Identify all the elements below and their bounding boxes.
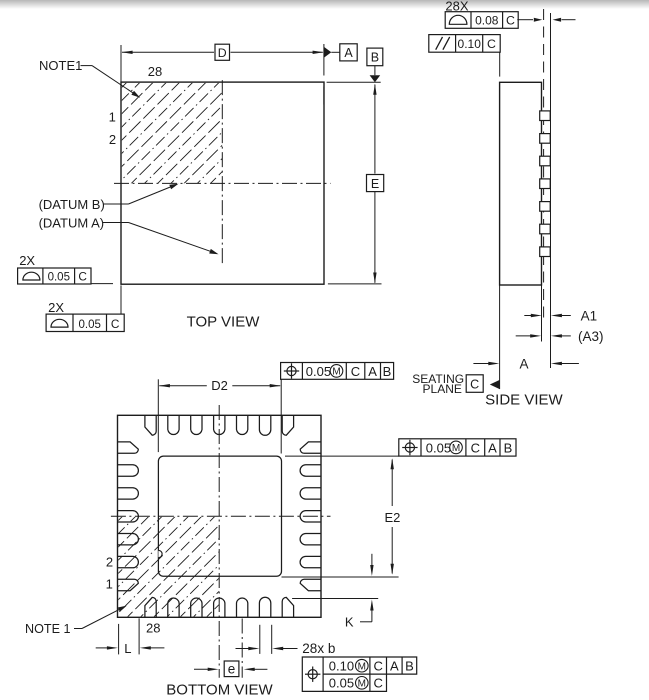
dimension L with arrows bbox=[96, 647, 110, 649]
side view lead-edge dashed line bbox=[543, 9, 545, 321]
pin 4 pad (left column) bbox=[118, 511, 139, 522]
svg-text:1: 1 bbox=[109, 110, 116, 125]
svg-text:TOP VIEW: TOP VIEW bbox=[187, 313, 261, 330]
svg-text:(DATUM B): (DATUM B) bbox=[39, 197, 105, 212]
dimension D2 extension lines bbox=[157, 379, 159, 452]
svg-text:A1: A1 bbox=[581, 308, 598, 323]
dimension e boxed label bbox=[224, 661, 239, 677]
pin 12 pad (top row) bbox=[237, 415, 248, 434]
dimension E extension line top bbox=[327, 81, 381, 83]
svg-text:B: B bbox=[383, 364, 392, 379]
svg-text:0.05: 0.05 bbox=[306, 364, 331, 379]
svg-text:C: C bbox=[487, 37, 496, 51]
svg-text:e: e bbox=[228, 661, 236, 676]
svg-text:C: C bbox=[471, 440, 480, 455]
top view vertical centerline bbox=[221, 80, 223, 266]
svg-text:2: 2 bbox=[109, 132, 116, 147]
svg-text:A: A bbox=[488, 440, 497, 455]
datum B triangle and stem bbox=[374, 66, 376, 76]
pin 10 pad (top row) bbox=[191, 415, 202, 434]
dimension L extension lines bbox=[118, 624, 120, 655]
bottom view vertical centerline bbox=[218, 405, 220, 678]
side view body outline bbox=[500, 82, 542, 285]
pin 16 pad (right column) bbox=[300, 465, 321, 476]
dimension D extension line left bbox=[120, 45, 122, 82]
svg-text:C: C bbox=[78, 270, 87, 284]
svg-text:C: C bbox=[374, 676, 383, 691]
svg-text:D: D bbox=[218, 46, 227, 60]
pin 11 pad (top row) bbox=[214, 415, 225, 434]
svg-text:D2: D2 bbox=[211, 378, 228, 393]
pin 22 pad (bottom row, chamfered) bbox=[282, 597, 293, 617]
28X profile tolerance frame bbox=[445, 12, 518, 29]
side view lead cross-sections bbox=[540, 111, 551, 121]
pin 23 pad (bottom row) bbox=[259, 597, 270, 617]
dimension A1 with arrows bbox=[524, 315, 533, 317]
pin 28 pad (bottom row, chamfered) bbox=[145, 597, 156, 617]
svg-text:0.08: 0.08 bbox=[475, 13, 499, 27]
dimension E boxed label bbox=[367, 175, 384, 192]
svg-text:28: 28 bbox=[146, 621, 160, 636]
pin 3 pad (left column) bbox=[118, 534, 139, 545]
svg-text:B: B bbox=[405, 659, 414, 674]
pin 13 pad (top row) bbox=[259, 415, 270, 435]
leader line from body corner to lower frame bbox=[120, 285, 122, 314]
position tolerance frame top (exposed pad) bbox=[281, 363, 394, 380]
extension line from frame to body bottom edge bbox=[91, 283, 113, 285]
svg-text:(DATUM A): (DATUM A) bbox=[39, 216, 104, 231]
svg-text:A: A bbox=[390, 659, 399, 674]
pin 17 pad (right column) bbox=[300, 488, 321, 499]
svg-text:(A3): (A3) bbox=[578, 329, 604, 344]
datum B boxed label bbox=[367, 48, 383, 66]
pin 15 pad (right column, chamfered) bbox=[300, 442, 321, 453]
pin 5 pad (left column) bbox=[118, 488, 139, 499]
leader arrows for 28X callout bbox=[517, 19, 533, 21]
bottom view package body outline bbox=[118, 415, 322, 617]
top gradient shade bbox=[0, 0, 649, 9]
exposed pad pin-1 notch bbox=[158, 550, 162, 557]
dimension E extension line bottom bbox=[328, 283, 382, 285]
svg-text:M: M bbox=[452, 443, 460, 454]
svg-text:E2: E2 bbox=[384, 510, 400, 525]
svg-text:K: K bbox=[345, 614, 354, 629]
pin 1 pad (left column, chamfered) bbox=[118, 579, 139, 590]
top view horizontal centerline bbox=[114, 182, 331, 184]
datum A boxed label bbox=[340, 44, 357, 61]
pin 2 pad (left column) bbox=[118, 556, 139, 567]
dimension e with arrows bbox=[194, 668, 210, 670]
svg-text:B: B bbox=[504, 440, 513, 455]
pin 7 pad (left column, chamfered) bbox=[118, 442, 139, 453]
pin 26 pad (bottom row) bbox=[191, 598, 202, 617]
svg-text:2: 2 bbox=[106, 555, 113, 570]
svg-text:E: E bbox=[371, 177, 379, 191]
svg-text:28x b: 28x b bbox=[302, 641, 335, 656]
svg-text:2X: 2X bbox=[48, 300, 64, 315]
position tolerance frame bottom (lead pattern) bbox=[302, 657, 416, 691]
dimension E2 line with arrows bbox=[391, 460, 393, 507]
svg-text:0.10: 0.10 bbox=[458, 37, 482, 51]
svg-text:0.05: 0.05 bbox=[426, 440, 451, 455]
svg-text:NOTE1: NOTE1 bbox=[39, 58, 82, 73]
pin 9 pad (top row) bbox=[168, 415, 179, 434]
pin 6 pad (left column) bbox=[118, 465, 139, 476]
pin 18 pad (right column) bbox=[300, 511, 321, 522]
svg-text:B: B bbox=[371, 51, 379, 65]
dimension D extension line right bbox=[323, 44, 325, 76]
svg-text:BOTTOM VIEW: BOTTOM VIEW bbox=[166, 682, 273, 699]
svg-text:C: C bbox=[470, 378, 479, 392]
pin 8 pad (top row, chamfered) bbox=[145, 415, 156, 435]
svg-text:28: 28 bbox=[148, 64, 162, 79]
svg-text:0.05: 0.05 bbox=[48, 272, 70, 284]
svg-text:C: C bbox=[351, 364, 360, 379]
E2 top extension line / frame leader bbox=[285, 455, 399, 457]
svg-text:A: A bbox=[344, 46, 353, 60]
svg-text:0.05: 0.05 bbox=[79, 319, 101, 331]
pin 27 pad (bottom row) bbox=[168, 598, 179, 617]
lead width b extension lines bbox=[259, 625, 261, 654]
exposed pad outline bbox=[158, 456, 281, 576]
pin 21 pad (right column, chamfered) bbox=[300, 579, 321, 590]
svg-text:0.05: 0.05 bbox=[329, 676, 354, 691]
top view package body outline bbox=[121, 82, 324, 284]
svg-text:PLANE: PLANE bbox=[423, 382, 462, 396]
svg-text:C: C bbox=[111, 317, 120, 331]
svg-text:A: A bbox=[519, 356, 528, 371]
dimension A with arrows bbox=[473, 363, 491, 365]
svg-text:M: M bbox=[332, 367, 340, 378]
svg-text:C: C bbox=[506, 13, 515, 27]
svg-text:0.10: 0.10 bbox=[329, 659, 354, 674]
side view right edge extension line bbox=[541, 285, 543, 342]
E2 bottom extension line bbox=[282, 576, 399, 578]
K lower extension line bbox=[292, 598, 378, 600]
svg-text:A: A bbox=[368, 364, 377, 379]
svg-text:1: 1 bbox=[106, 577, 113, 592]
dimension E line with arrows bbox=[374, 85, 376, 174]
lead width b arrows bbox=[236, 648, 252, 650]
pin 24 pad (bottom row) bbox=[237, 598, 248, 617]
pin 20 pad (right column) bbox=[300, 556, 321, 567]
dimension D2 line with arrows bbox=[159, 385, 207, 387]
svg-text:L: L bbox=[124, 641, 131, 656]
svg-text:2X: 2X bbox=[19, 253, 35, 268]
dimension D boxed label bbox=[215, 44, 230, 60]
pin 25 pad (bottom row) bbox=[214, 598, 225, 617]
svg-text:M: M bbox=[358, 661, 366, 672]
pin 14 pad (top row, chamfered) bbox=[282, 415, 293, 435]
pitch e centerlines bbox=[241, 619, 243, 678]
svg-text:C: C bbox=[374, 659, 383, 674]
parallelism frame leader bbox=[499, 52, 501, 76]
side view lead outer edge line bbox=[550, 13, 552, 368]
dimension D line with arrows bbox=[122, 51, 214, 53]
position tolerance frame right (pads) bbox=[399, 439, 516, 456]
svg-text:NOTE 1: NOTE 1 bbox=[25, 622, 71, 636]
svg-text:M: M bbox=[358, 678, 366, 689]
datum C boxed label bbox=[466, 375, 483, 393]
bottom view horizontal centerline bbox=[111, 515, 331, 517]
datum A triangle bbox=[324, 47, 331, 58]
dimension K arrows bbox=[371, 554, 373, 568]
seating plane datum triangle bbox=[490, 380, 500, 389]
pin 19 pad (right column) bbox=[300, 534, 321, 545]
parallelism tolerance frame bbox=[429, 35, 500, 53]
svg-text:SIDE VIEW: SIDE VIEW bbox=[485, 391, 563, 408]
side view left edge extension line bbox=[499, 285, 501, 389]
dimension A3 with arrows bbox=[516, 335, 533, 337]
